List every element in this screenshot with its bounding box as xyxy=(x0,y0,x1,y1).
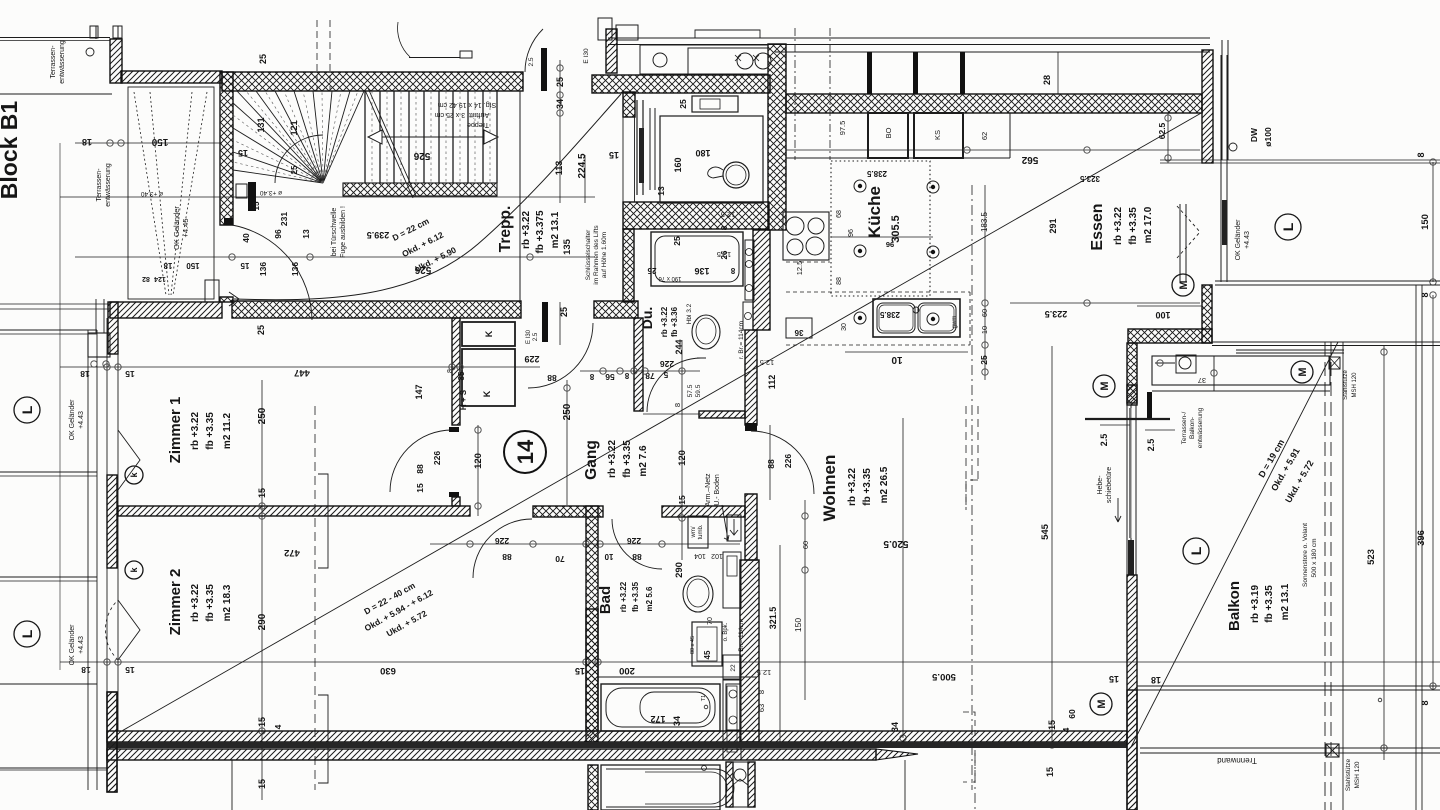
dim 321.5 150 xyxy=(779,545,781,745)
dim 523 xyxy=(1383,345,1385,760)
wall WC-east crosshatch xyxy=(768,44,786,230)
svg-text:OK Geländer: OK Geländer xyxy=(172,206,181,250)
svg-text:231: 231 xyxy=(279,212,289,226)
svg-text:+4.45: +4.45 xyxy=(181,219,190,238)
below-wall kitchen lines xyxy=(904,760,906,810)
svg-text:Schlüsselschalter: Schlüsselschalter xyxy=(585,229,592,280)
svg-text:562: 562 xyxy=(1021,154,1038,165)
svg-text:15: 15 xyxy=(1047,720,1057,730)
dim row 18 15 bottom left xyxy=(60,661,1440,663)
svg-text:224.5: 224.5 xyxy=(577,153,588,178)
svg-text:239.5: 239.5 xyxy=(367,230,390,240)
svg-text:18: 18 xyxy=(163,261,172,270)
svg-text:226: 226 xyxy=(783,454,793,468)
svg-text:Arm.–Netz: Arm.–Netz xyxy=(705,473,712,507)
svg-text:Hbl 3.2: Hbl 3.2 xyxy=(686,303,693,324)
svg-text:136: 136 xyxy=(290,262,300,276)
wall stair top crosshatch xyxy=(222,72,523,91)
svg-text:15: 15 xyxy=(240,261,249,270)
svg-text:8: 8 xyxy=(1416,152,1426,157)
svg-text:Hebe-: Hebe- xyxy=(1097,475,1104,495)
svg-text:88: 88 xyxy=(502,552,512,562)
top bracket shape xyxy=(695,30,760,38)
WC cistern xyxy=(692,96,738,112)
stair winder fan xyxy=(237,91,323,183)
svg-text:K: K xyxy=(484,330,494,337)
svg-text:o. Bpk.: o. Bpk. xyxy=(723,622,729,641)
svg-text:Fuge ausbilden !: Fuge ausbilden ! xyxy=(340,206,347,258)
svg-text:M: M xyxy=(1297,367,1309,376)
svg-text:223.5: 223.5 xyxy=(1045,309,1068,319)
svg-text:229: 229 xyxy=(524,354,539,364)
svg-text:500 x 180 cm: 500 x 180 cm xyxy=(1311,538,1318,577)
svg-text:70: 70 xyxy=(555,554,565,564)
circle k markers xyxy=(125,466,143,484)
dim 447 row xyxy=(60,366,540,368)
wall gang-south crosshatch xyxy=(533,506,603,517)
svg-text:8: 8 xyxy=(673,403,682,407)
svg-text:60: 60 xyxy=(1067,709,1077,719)
svg-text:88: 88 xyxy=(415,464,425,474)
circle L essen xyxy=(1275,214,1301,240)
svg-text:113: 113 xyxy=(554,161,564,176)
wall zimmer west windows xyxy=(106,318,108,731)
svg-text:68: 68 xyxy=(836,210,843,218)
svg-text:520.5: 520.5 xyxy=(883,538,908,549)
kitchen target dots xyxy=(854,180,866,192)
kitchen terrace verticals xyxy=(867,52,872,94)
svg-text:m2 26.5: m2 26.5 xyxy=(879,466,890,503)
svg-text:rb +3.22: rb +3.22 xyxy=(619,581,628,612)
svg-text:Balkon-: Balkon- xyxy=(1189,417,1196,439)
svg-text:Auftritt: 3 x 25 cm: Auftritt: 3 x 25 cm xyxy=(435,111,490,118)
svg-text:60: 60 xyxy=(801,541,810,549)
svg-text:180: 180 xyxy=(695,148,710,158)
entry door arc xyxy=(232,225,312,320)
wall stairwell south band xyxy=(232,301,521,318)
circle M balcony bottom xyxy=(1090,693,1112,715)
svg-text:62.5: 62.5 xyxy=(1157,122,1167,139)
balcony storen box xyxy=(1152,356,1330,385)
svg-text:30: 30 xyxy=(841,323,848,331)
circle M wohnen NE xyxy=(1093,375,1115,397)
svg-text:8: 8 xyxy=(757,690,766,694)
stair treads xyxy=(364,91,366,183)
bad east fixture box xyxy=(726,684,740,730)
du door arc xyxy=(647,358,701,412)
dim 28 kitchen top xyxy=(1057,52,1059,94)
stair slope double line xyxy=(365,90,413,198)
svg-text:Block B1: Block B1 xyxy=(0,101,22,200)
svg-text:Stahlstütze: Stahlstütze xyxy=(1343,369,1349,399)
svg-text:bei Türschwelle: bei Türschwelle xyxy=(331,208,338,257)
wall terrace top-left L xyxy=(110,39,122,83)
wall bottom lower band xyxy=(107,749,876,760)
svg-text:88: 88 xyxy=(766,459,776,469)
balcony door post black xyxy=(1147,392,1152,418)
line bad north of tub xyxy=(598,676,757,678)
kitchen dash-dot room divider xyxy=(971,185,973,790)
svg-text:m2 13.1: m2 13.1 xyxy=(1280,583,1291,620)
svg-text:4: 4 xyxy=(273,724,283,729)
svg-text:Wohnen: Wohnen xyxy=(820,455,839,522)
dim chain left of lift xyxy=(559,60,561,203)
svg-text:82: 82 xyxy=(142,275,150,282)
svg-text:28: 28 xyxy=(1042,75,1052,85)
svg-text:12.5: 12.5 xyxy=(717,250,732,259)
dim chain zimmer west xyxy=(261,380,263,800)
wall bottom upper band xyxy=(107,731,1127,742)
circle 14 apartment number xyxy=(504,431,546,473)
left edge dim vertical xyxy=(59,143,61,670)
zimmer2 window dashed xyxy=(314,406,316,790)
kitchen sink unit xyxy=(873,299,960,337)
wall essen south vertical xyxy=(1202,285,1212,343)
svg-text:rb +3.22: rb +3.22 xyxy=(660,306,669,337)
svg-text:OK Geländer: OK Geländer xyxy=(69,399,76,441)
svg-text:entwässerung: entwässerung xyxy=(59,40,66,84)
terrace south lines left xyxy=(0,303,110,305)
svg-text:15: 15 xyxy=(1045,767,1055,777)
svg-text:M: M xyxy=(1096,699,1108,708)
svg-text:60: 60 xyxy=(980,309,989,317)
svg-text:25: 25 xyxy=(678,99,688,109)
svg-text:70: 70 xyxy=(707,617,714,625)
svg-text:fb +3.35: fb +3.35 xyxy=(631,581,640,612)
svg-text:rb +3.22: rb +3.22 xyxy=(847,468,858,507)
svg-text:OK Geländer: OK Geländer xyxy=(1235,219,1242,261)
wohnen west boxes xyxy=(727,515,741,541)
circle M balcony door xyxy=(1291,361,1313,383)
svg-text:L: L xyxy=(1188,546,1204,555)
svg-text:8: 8 xyxy=(1420,700,1430,705)
main diagonal line xyxy=(120,112,1203,732)
bad washbasin xyxy=(683,576,713,612)
essen sliding door xyxy=(1220,55,1222,282)
balcony top edge double line xyxy=(1215,280,1440,282)
WC toilet xyxy=(723,162,749,188)
wall bad west crosshatch xyxy=(586,506,598,742)
svg-text:291: 291 xyxy=(1048,218,1058,233)
svg-text:rb +3.22: rb +3.22 xyxy=(1113,207,1124,246)
kitchen cooktop xyxy=(783,212,829,260)
svg-text:+4.43: +4.43 xyxy=(78,411,85,429)
svg-text:rb +3.19: rb +3.19 xyxy=(1250,585,1261,624)
svg-text:fb +3.35: fb +3.35 xyxy=(205,584,216,622)
wall balcony west upper xyxy=(1127,343,1137,403)
svg-text:447: 447 xyxy=(294,367,310,378)
kitchen box 36 xyxy=(786,318,812,338)
svg-text:96: 96 xyxy=(273,229,283,239)
balcony door fitting xyxy=(1176,355,1196,373)
svg-text:244: 244 xyxy=(674,339,684,354)
svg-text:8: 8 xyxy=(720,225,729,230)
wohnen door post xyxy=(745,423,757,431)
zimmer2 door arc xyxy=(473,519,532,578)
kitchen dash-dot shaft top xyxy=(794,28,796,160)
trennwand line xyxy=(1140,747,1440,749)
svg-text:63: 63 xyxy=(757,704,766,712)
svg-text:ø100: ø100 xyxy=(1263,127,1273,147)
svg-text:100: 100 xyxy=(1155,310,1170,320)
svg-text:m2 13.1: m2 13.1 xyxy=(550,211,561,248)
svg-text:25: 25 xyxy=(256,325,266,335)
svg-text:135: 135 xyxy=(562,238,573,255)
left dim ticks mid xyxy=(91,361,97,367)
bad bathtub xyxy=(601,684,720,731)
svg-text:15: 15 xyxy=(252,201,261,210)
dim 100 essen door xyxy=(1137,305,1202,307)
svg-text:25: 25 xyxy=(672,236,682,246)
svg-text:15: 15 xyxy=(257,717,267,727)
wall spine wohnen-west lower xyxy=(745,494,757,560)
svg-text:fb +3.35: fb +3.35 xyxy=(862,468,873,506)
svg-text:MSH 120: MSH 120 xyxy=(1354,761,1361,788)
svg-text:BO: BO xyxy=(884,127,893,138)
svg-text:U.- Boden: U.- Boden xyxy=(714,474,721,506)
svg-text:8: 8 xyxy=(730,266,735,275)
wall du west upper strip xyxy=(623,229,634,302)
svg-text:8: 8 xyxy=(624,371,629,380)
wohnen door arc xyxy=(751,431,814,494)
svg-text:2.5: 2.5 xyxy=(1146,439,1156,452)
svg-text:ø +3.40: ø +3.40 xyxy=(141,190,164,197)
balcony north line xyxy=(1212,341,1440,343)
svg-text:88: 88 xyxy=(836,277,843,285)
svg-text:Trennwand: Trennwand xyxy=(1217,756,1257,765)
small rects above stair door xyxy=(598,18,612,40)
terrace door lower-left xyxy=(88,333,110,357)
svg-text:172: 172 xyxy=(650,714,665,724)
svg-text:fb +3.35: fb +3.35 xyxy=(1128,207,1139,245)
svg-text:+4.43: +4.43 xyxy=(78,636,85,654)
dim chain bad east xyxy=(681,340,683,560)
svg-text:Bad: Bad xyxy=(597,586,614,614)
steel column top xyxy=(1329,357,1340,369)
door trepp south xyxy=(542,302,548,342)
svg-text:L: L xyxy=(19,405,35,414)
circle L balcony xyxy=(1183,538,1209,564)
terrace top edge lines xyxy=(0,37,110,39)
dim row y371 xyxy=(580,370,700,372)
svg-text:M: M xyxy=(1178,280,1190,289)
svg-text:18: 18 xyxy=(81,665,91,675)
svg-text:40: 40 xyxy=(241,233,251,243)
svg-text:120: 120 xyxy=(473,453,484,469)
svg-text:Stahlstütze: Stahlstütze xyxy=(1345,759,1352,792)
svg-text:13: 13 xyxy=(656,186,666,196)
balcony mid line xyxy=(1137,685,1440,687)
wohnen door dim xyxy=(769,425,771,500)
svg-text:25: 25 xyxy=(290,165,299,174)
svg-text:H + S: H + S xyxy=(459,389,468,410)
svg-text:fb +3.35: fb +3.35 xyxy=(1264,585,1275,623)
svg-text:150: 150 xyxy=(186,261,200,270)
kitchen counter dotted rect xyxy=(831,161,930,296)
below-wall spine box xyxy=(726,762,733,807)
svg-text:15: 15 xyxy=(1109,674,1119,684)
wall spine wohnen-west upper xyxy=(745,330,757,425)
svg-text:250: 250 xyxy=(562,403,573,420)
wall bottom left cap xyxy=(107,692,117,792)
svg-text:auf Höhe 1.60m: auf Höhe 1.60m xyxy=(601,232,608,278)
balcony diagonal line xyxy=(1131,342,1338,747)
svg-text:472: 472 xyxy=(284,547,300,558)
kitchen north counter xyxy=(640,45,768,74)
terrace dashed plan top-left xyxy=(128,87,214,299)
svg-text:2.5: 2.5 xyxy=(1099,434,1109,447)
svg-text:m2 7.6: m2 7.6 xyxy=(638,445,649,477)
dim 10 kitchen south xyxy=(845,351,968,353)
svg-text:E I30: E I30 xyxy=(526,329,532,344)
wall lift jog block xyxy=(623,92,635,117)
svg-text:62: 62 xyxy=(980,132,989,140)
dim 62.5 xyxy=(1167,113,1169,163)
svg-text:Treppe: Treppe xyxy=(467,121,489,128)
wall stair left below door xyxy=(220,297,233,302)
dashed shaft lines top xyxy=(316,20,318,91)
svg-text:150: 150 xyxy=(151,136,168,147)
svg-text:34: 34 xyxy=(672,716,682,726)
svg-text:15: 15 xyxy=(125,369,135,379)
door stair top xyxy=(541,48,547,91)
svg-text:18: 18 xyxy=(82,137,92,147)
svg-text:K: K xyxy=(482,390,492,397)
wall bad north band xyxy=(662,506,745,517)
svg-text:136: 136 xyxy=(694,266,709,276)
circle M essen door xyxy=(1172,274,1194,296)
wall stair-south left part xyxy=(110,302,222,318)
svg-text:34: 34 xyxy=(555,99,565,109)
svg-text:Du.: Du. xyxy=(639,307,655,330)
svg-text:fb +3.35: fb +3.35 xyxy=(205,412,216,450)
dim 150 terrace xyxy=(75,142,222,144)
wall kitchen north crosshatch xyxy=(786,94,1202,113)
svg-text:25: 25 xyxy=(555,77,565,87)
svg-text:250: 250 xyxy=(257,407,268,424)
kitchen counter dashed xyxy=(786,291,970,293)
svg-text:25: 25 xyxy=(258,54,268,64)
svg-text:L: L xyxy=(1280,222,1296,231)
svg-text:78: 78 xyxy=(645,371,655,381)
svg-text:190 x 76: 190 x 76 xyxy=(658,275,682,281)
svg-text:Trepp.: Trepp. xyxy=(497,206,514,253)
wall balcony west lower xyxy=(1127,575,1137,810)
svg-text:im Rahmen des Lifts: im Rahmen des Lifts xyxy=(593,225,600,285)
kitchen BO KS boxes xyxy=(868,113,908,158)
svg-text:entwässerung: entwässerung xyxy=(105,163,112,207)
svg-text:Essen: Essen xyxy=(1089,203,1106,250)
svg-text:m2 17.0: m2 17.0 xyxy=(1143,206,1154,243)
svg-text:m2 5.6: m2 5.6 xyxy=(645,586,654,611)
svg-text:104: 104 xyxy=(694,552,706,559)
svg-text:m2 11.2: m2 11.2 xyxy=(222,412,233,449)
svg-text:12.5: 12.5 xyxy=(757,668,772,677)
svg-text:DW: DW xyxy=(1249,127,1259,142)
svg-text:96: 96 xyxy=(848,229,855,237)
dim 396 8 xyxy=(1432,295,1434,690)
svg-text:rb +3.22: rb +3.22 xyxy=(521,211,532,250)
svg-text:Gang: Gang xyxy=(583,440,600,480)
dim 120 gang door xyxy=(477,425,479,516)
svg-text:15: 15 xyxy=(257,779,267,789)
wall du west hatch xyxy=(634,318,643,411)
svg-text:396: 396 xyxy=(1416,530,1427,546)
svg-text:88: 88 xyxy=(632,552,642,562)
svg-text:+4.43: +4.43 xyxy=(1244,231,1251,249)
wall balcony-west bottom join xyxy=(1127,690,1137,810)
svg-text:183.5: 183.5 xyxy=(980,211,989,232)
wall top band over WC xyxy=(592,75,770,93)
gang dim row 226 88 70 10 88 226 xyxy=(430,543,740,545)
stair stringer hatch strip xyxy=(343,183,497,196)
svg-text:120: 120 xyxy=(677,450,688,466)
svg-text:56: 56 xyxy=(605,372,615,382)
svg-text:238.5: 238.5 xyxy=(879,310,900,319)
svg-text:131: 131 xyxy=(256,117,266,132)
svg-text:545: 545 xyxy=(1040,523,1051,540)
dim verticals wohnen xyxy=(902,418,904,738)
svg-text:15: 15 xyxy=(257,488,267,498)
svg-text:13: 13 xyxy=(301,229,311,239)
svg-text:schiebetüre: schiebetüre xyxy=(1106,467,1113,503)
wall spine du-east xyxy=(753,230,770,330)
svg-text:147: 147 xyxy=(414,384,424,399)
stair direction line with arrows xyxy=(382,136,484,138)
svg-text:12.5: 12.5 xyxy=(721,210,736,219)
svg-text:18: 18 xyxy=(1151,675,1161,685)
svg-text:T1: T1 xyxy=(701,695,707,701)
svg-text:rb +3.22: rb +3.22 xyxy=(607,440,618,479)
essen window double line xyxy=(1221,40,1223,160)
svg-text:m2 18.3: m2 18.3 xyxy=(222,584,233,621)
svg-text:102: 102 xyxy=(711,552,723,559)
wm tumb box xyxy=(688,516,708,548)
kitchen dim chain east xyxy=(984,185,986,380)
svg-text:85: 85 xyxy=(457,371,466,380)
dim line y197 xyxy=(60,196,595,198)
dim 69 wohnen xyxy=(804,500,806,700)
svg-text:Küche: Küche xyxy=(865,186,884,238)
wall stair left crosshatch xyxy=(220,72,233,225)
svg-text:25: 25 xyxy=(559,307,569,317)
svg-text:321.5: 321.5 xyxy=(768,607,778,630)
zimmer1 door arc xyxy=(390,430,452,492)
balcony dashed storen lines xyxy=(1324,342,1326,810)
svg-text:305.5: 305.5 xyxy=(890,215,902,243)
wall zimmer1-zimmer2 xyxy=(118,506,470,516)
terrace top small stubs xyxy=(90,26,98,38)
dim 562 xyxy=(786,149,1200,151)
svg-text:15: 15 xyxy=(238,148,248,158)
svg-text:226: 226 xyxy=(495,536,509,546)
svg-text:36: 36 xyxy=(794,328,803,337)
svg-text:E I30: E I30 xyxy=(583,48,590,64)
svg-text:r. Br.= 114cm: r. Br.= 114cm xyxy=(738,619,745,657)
svg-text:526: 526 xyxy=(413,150,430,161)
kitchen dim 96 row xyxy=(831,236,933,238)
stair newel post xyxy=(248,182,256,211)
wall spine fixtures xyxy=(745,240,754,300)
svg-text:323.5: 323.5 xyxy=(1079,174,1100,183)
svg-text:96: 96 xyxy=(886,240,894,249)
svg-text:121: 121 xyxy=(289,120,299,135)
svg-text:2.5: 2.5 xyxy=(528,57,535,66)
svg-text:rb +3.22: rb +3.22 xyxy=(190,412,201,451)
zimmer window door arcs left xyxy=(118,430,140,490)
bad shower tray xyxy=(692,622,722,666)
svg-text:ø +3.40: ø +3.40 xyxy=(260,189,283,196)
